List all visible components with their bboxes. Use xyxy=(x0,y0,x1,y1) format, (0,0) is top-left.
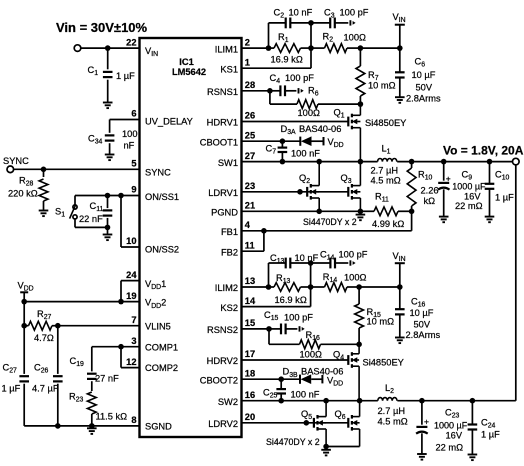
resistor R16 xyxy=(268,329,270,344)
node ON/SS tie xyxy=(118,193,124,199)
ground R28 xyxy=(39,210,49,212)
svg-text:50V: 50V xyxy=(416,83,433,93)
svg-text:1 µF: 1 µF xyxy=(481,430,500,440)
wire L1 to Vo xyxy=(397,161,512,163)
node Q1 drain xyxy=(358,101,364,107)
svg-text:25: 25 xyxy=(245,130,255,140)
svg-text:10 nF: 10 nF xyxy=(289,8,313,18)
resistor R6 xyxy=(269,91,271,104)
svg-text:22 mΩ: 22 mΩ xyxy=(455,201,483,211)
svg-text:SYNC: SYNC xyxy=(145,168,171,178)
svg-text:18: 18 xyxy=(245,368,255,378)
node VIN/C16 xyxy=(397,284,403,290)
svg-text:Si4850EY: Si4850EY xyxy=(365,118,406,128)
node Q2 gate xyxy=(297,189,303,195)
node R13/R14/KS2 xyxy=(308,284,314,290)
wire Q5 Q6 sources xyxy=(326,446,360,448)
svg-text:COMP1: COMP1 xyxy=(145,342,178,352)
wire pin 3 COMP1 xyxy=(92,346,140,348)
resistor R2 xyxy=(325,44,348,53)
svg-text:ON/SS2: ON/SS2 xyxy=(145,245,179,255)
wire KS1 pin 1 xyxy=(242,67,312,69)
node Q6 drain xyxy=(357,398,363,404)
svg-text:24: 24 xyxy=(126,270,137,280)
node C26 bottom xyxy=(55,423,61,429)
svg-text:16.9 kΩ: 16.9 kΩ xyxy=(275,295,307,305)
svg-text:100Ω: 100Ω xyxy=(344,33,367,43)
resistor R28 xyxy=(43,169,45,177)
node COMP tie xyxy=(118,344,124,350)
wire R27 to pin 7 VLIN5 xyxy=(58,325,140,327)
node Q3 source / ground xyxy=(358,209,364,215)
svg-text:1 µF: 1 µF xyxy=(2,384,21,394)
node C23 top xyxy=(419,398,425,404)
svg-text:12: 12 xyxy=(126,357,136,367)
node R10 top xyxy=(409,159,415,165)
svg-text:100: 100 xyxy=(122,129,138,139)
wire RSNS2 pin 15 xyxy=(242,328,270,330)
svg-text:5: 5 xyxy=(131,159,136,169)
svg-text:21: 21 xyxy=(245,201,255,211)
svg-text:SW1: SW1 xyxy=(218,158,238,168)
wire VDD down xyxy=(23,302,25,326)
svg-text:13: 13 xyxy=(245,276,255,286)
capacitor C9 polarized xyxy=(443,162,445,181)
svg-text:10 mΩ: 10 mΩ xyxy=(368,81,396,91)
resistor R13 xyxy=(274,283,301,292)
svg-text:15: 15 xyxy=(245,318,255,328)
svg-text:10: 10 xyxy=(126,236,136,246)
svg-text:100 pF: 100 pF xyxy=(340,8,369,18)
svg-text:UV_DELAY: UV_DELAY xyxy=(145,117,193,127)
svg-text:6: 6 xyxy=(131,109,136,119)
svg-text:CBOOT1: CBOOT1 xyxy=(200,137,238,147)
svg-text:FB2: FB2 xyxy=(221,247,238,257)
transistor Q1 Si4850EY xyxy=(347,117,349,127)
svg-text:2.26: 2.26 xyxy=(421,186,439,196)
svg-text:HDRV2: HDRV2 xyxy=(207,356,238,366)
svg-text:16.9 kΩ: 16.9 kΩ xyxy=(271,55,303,65)
svg-text:Vin = 30V±10%: Vin = 30V±10% xyxy=(56,20,148,35)
svg-text:2.7 µH: 2.7 µH xyxy=(371,166,399,176)
capacitor C3 xyxy=(311,22,330,24)
capacitor C4 xyxy=(270,90,281,92)
svg-text:100 nF: 100 nF xyxy=(291,149,320,159)
wire RSNS1 pin 28 xyxy=(242,90,270,92)
node pin24/pin19 xyxy=(118,299,124,305)
node R23 bottom xyxy=(89,423,95,429)
svg-text:ON/SS1: ON/SS1 xyxy=(145,192,179,202)
svg-text:IC1: IC1 xyxy=(179,57,193,67)
svg-text:1000 µF: 1000 µF xyxy=(434,421,468,431)
wire pin 24 VDD1 xyxy=(121,280,140,282)
svg-text:nF: nF xyxy=(124,141,135,151)
svg-text:22 mΩ: 22 mΩ xyxy=(436,443,464,453)
ground C10 xyxy=(485,216,495,218)
node C24 top xyxy=(470,398,476,404)
node C11 top xyxy=(105,193,111,199)
capacitor C27 xyxy=(23,326,25,374)
svg-text:RSNS1: RSNS1 xyxy=(207,87,238,97)
svg-text:10 mΩ: 10 mΩ xyxy=(367,317,395,327)
svg-text:17: 17 xyxy=(245,349,255,359)
svg-text:LDRV2: LDRV2 xyxy=(208,419,238,429)
svg-text:Vo = 1.8V, 20A: Vo = 1.8V, 20A xyxy=(443,144,524,158)
svg-text:BAS40-06: BAS40-06 xyxy=(301,367,343,377)
svg-text:RSNS2: RSNS2 xyxy=(207,325,238,335)
svg-text:+: + xyxy=(446,174,451,184)
svg-text:4: 4 xyxy=(245,220,251,230)
svg-text:2.8Arms: 2.8Arms xyxy=(406,330,441,340)
svg-text:16V: 16V xyxy=(464,192,481,202)
svg-text:KS2: KS2 xyxy=(220,303,238,313)
svg-text:26: 26 xyxy=(245,111,255,121)
wire SW1 row / output node xyxy=(242,161,378,163)
transistor Q4 Si4850EY xyxy=(347,355,349,365)
node R13 left xyxy=(266,284,272,290)
svg-text:11.5 kΩ: 11.5 kΩ xyxy=(96,412,128,422)
svg-text:100 pF: 100 pF xyxy=(339,250,368,260)
wire ILIM2 row xyxy=(242,286,269,288)
terminal SYNC xyxy=(7,166,14,173)
wire ON/SS2 pin 10 xyxy=(120,196,122,248)
svg-text:27: 27 xyxy=(245,151,255,161)
capacitor C7 xyxy=(281,141,283,147)
capacitor C6 xyxy=(399,48,401,72)
capacitor C14 xyxy=(311,262,331,264)
node CBOOT1/D3A/C7 xyxy=(280,138,286,144)
svg-text:100 nF: 100 nF xyxy=(291,390,320,400)
node VDD xyxy=(21,299,27,305)
svg-text:2.8Arms: 2.8Arms xyxy=(406,94,441,104)
capacitor C10 xyxy=(489,162,491,184)
svg-text:LDRV1: LDRV1 xyxy=(208,188,238,198)
wire LDRV1 pin 23 xyxy=(242,191,349,193)
svg-text:22 nF: 22 nF xyxy=(79,214,103,224)
svg-text:FB1: FB1 xyxy=(221,227,238,237)
svg-text:Si4850EY: Si4850EY xyxy=(363,358,404,368)
ground C16 xyxy=(395,337,405,339)
svg-text:1 µF: 1 µF xyxy=(116,71,135,81)
svg-text:Si4470DY x 2: Si4470DY x 2 xyxy=(303,217,357,227)
resistor R27 xyxy=(29,321,53,330)
node R7 top xyxy=(358,45,364,51)
capacitor C2 xyxy=(268,23,270,48)
svg-text:COMP2: COMP2 xyxy=(145,363,178,373)
node Q2 drain xyxy=(316,159,322,165)
wire PGND pin 21 xyxy=(242,210,361,212)
resistor R7 xyxy=(359,48,361,66)
capacitor C1 xyxy=(107,48,109,69)
node Vin/C1 junction xyxy=(105,45,111,51)
svg-text:+: + xyxy=(424,417,429,427)
ground C24 xyxy=(468,454,478,456)
ground SGND xyxy=(91,426,93,428)
ground C9 xyxy=(439,216,449,218)
svg-text:14: 14 xyxy=(245,296,256,306)
svg-text:HDRV1: HDRV1 xyxy=(207,118,238,128)
node C7/SW1 xyxy=(280,159,286,165)
ground Q5 Q6 xyxy=(321,449,331,451)
terminal Vo xyxy=(513,158,520,165)
capacitor C25 xyxy=(280,379,282,389)
node Q5 gate xyxy=(304,420,310,426)
svg-text:LM5642: LM5642 xyxy=(172,67,206,77)
svg-text:100Ω: 100Ω xyxy=(300,350,323,360)
capacitor C19 xyxy=(91,347,93,372)
svg-text:16V: 16V xyxy=(446,431,463,441)
node C9 top xyxy=(441,159,447,165)
node C2/C3 xyxy=(308,20,314,26)
svg-text:100 pF: 100 pF xyxy=(284,313,313,323)
terminal Vin input xyxy=(74,45,81,52)
svg-text:10 µF: 10 µF xyxy=(412,70,436,80)
node Q5 source ground xyxy=(323,444,329,450)
svg-text:3: 3 xyxy=(131,336,136,346)
svg-text:220 kΩ: 220 kΩ xyxy=(8,189,38,199)
wire FB1 row xyxy=(242,230,412,232)
node CBOOT2/D3B/C25 xyxy=(278,376,284,382)
inductor L1 xyxy=(378,159,397,162)
capacitor C11 xyxy=(107,196,109,209)
wire CBOOT1 pin 25 xyxy=(242,140,283,142)
svg-text:1000 µF: 1000 µF xyxy=(452,182,486,192)
resistor R23 xyxy=(87,392,96,414)
svg-text:2: 2 xyxy=(245,37,250,47)
node Q2 source xyxy=(316,209,322,215)
ground C11 xyxy=(103,234,113,236)
svg-text:20: 20 xyxy=(245,412,255,422)
switch S1 xyxy=(74,196,76,205)
node Q1 source / L1 xyxy=(358,159,364,165)
node C11 bottom xyxy=(105,225,111,231)
svg-text:SYNC: SYNC xyxy=(3,156,29,166)
svg-text:SW2: SW2 xyxy=(218,397,238,407)
svg-text:8: 8 xyxy=(131,415,136,425)
wire KS2 pin 14 xyxy=(242,306,311,308)
wire HDRV1 pin 26 xyxy=(242,121,349,123)
svg-text:50V: 50V xyxy=(414,320,431,330)
transistor Q5 Si4470DY xyxy=(313,418,315,428)
svg-text:KS1: KS1 xyxy=(220,64,238,74)
svg-text:PGND: PGND xyxy=(211,208,238,218)
svg-text:22: 22 xyxy=(126,37,136,47)
svg-text:28: 28 xyxy=(245,80,255,90)
svg-text:1 µF: 1 µF xyxy=(495,193,514,203)
capacitor C16 xyxy=(399,287,401,309)
node R1/R2/KS1 xyxy=(308,45,314,51)
capacitor C24 xyxy=(471,401,473,425)
svg-text:4.5 mΩ: 4.5 mΩ xyxy=(371,176,401,186)
svg-text:10 µF: 10 µF xyxy=(410,308,434,318)
wire pin 6 UV_DELAY xyxy=(110,119,140,121)
wire CBOOT2 pin 18 xyxy=(242,378,282,380)
node SYNC/R28 xyxy=(41,167,47,173)
capacitor C15 xyxy=(269,328,281,330)
svg-text:9: 9 xyxy=(131,185,136,195)
svg-text:CBOOT2: CBOOT2 xyxy=(200,375,238,385)
resistor R14 xyxy=(325,283,348,292)
transistor Q6 Si4470DY xyxy=(347,418,349,428)
svg-text:4.99 kΩ: 4.99 kΩ xyxy=(372,219,404,229)
capacitor C34 xyxy=(105,134,115,136)
node C25/SW2 xyxy=(278,398,284,404)
wire VDD row to pin 19 xyxy=(24,301,139,303)
svg-text:BAS40-06: BAS40-06 xyxy=(299,124,341,134)
ground C23 xyxy=(417,453,427,455)
ground PGND xyxy=(356,214,366,216)
svg-text:7: 7 xyxy=(131,315,136,325)
svg-text:19: 19 xyxy=(126,291,136,301)
svg-text:ILIM1: ILIM1 xyxy=(215,44,238,54)
node C13/C14 xyxy=(308,260,314,266)
wire ILIM1 row xyxy=(242,47,269,49)
transistor Q3 Si4470DY xyxy=(347,187,349,197)
wire SYNC to pin 5 xyxy=(14,168,140,170)
svg-text:100Ω: 100Ω xyxy=(298,108,321,118)
svg-text:ILIM2: ILIM2 xyxy=(215,283,238,293)
svg-text:kΩ: kΩ xyxy=(424,196,436,206)
ground C34 xyxy=(105,154,115,156)
ground C6 xyxy=(395,96,405,98)
svg-text:VLIN5: VLIN5 xyxy=(145,321,171,331)
svg-text:100Ω: 100Ω xyxy=(344,273,367,283)
ground C1 xyxy=(103,102,113,104)
node R27 right xyxy=(55,323,61,329)
resistor R15 xyxy=(358,287,360,304)
node R27 left xyxy=(21,323,27,329)
node R10/R11/FB xyxy=(409,209,415,215)
wire L2 to output rail xyxy=(397,400,515,402)
resistor R11 xyxy=(360,210,374,212)
svg-text:1: 1 xyxy=(245,57,250,67)
resistor R10 xyxy=(411,162,413,168)
node Q4 drain xyxy=(356,342,362,348)
wire Vin to pin 22 xyxy=(81,47,140,49)
svg-text:27 nF: 27 nF xyxy=(95,374,119,384)
wire SGND row pin 8 xyxy=(24,425,139,427)
svg-text:11: 11 xyxy=(245,240,255,250)
node C10 top xyxy=(487,159,493,165)
svg-text:SGND: SGND xyxy=(145,422,172,432)
svg-text:10 nF: 10 nF xyxy=(295,253,319,263)
svg-text:2.7 µH: 2.7 µH xyxy=(378,406,406,416)
diode D3B BAS40-06 xyxy=(281,378,300,380)
resistor R1 xyxy=(274,44,301,53)
node VIN/C6 xyxy=(397,45,403,51)
node C15 left xyxy=(266,326,272,332)
svg-text:Si4470DY x 2: Si4470DY x 2 xyxy=(266,437,320,447)
node R15 top xyxy=(356,284,362,290)
svg-text:4.7Ω: 4.7Ω xyxy=(34,333,54,343)
svg-text:23: 23 xyxy=(245,181,255,191)
svg-text:16: 16 xyxy=(245,390,255,400)
inductor L2 xyxy=(378,398,397,401)
wire SW2 row xyxy=(242,400,378,402)
capacitor C23 polarized xyxy=(421,401,423,425)
wire HDRV2 pin 17 xyxy=(242,359,349,361)
wire pin 9 ON/SS1 xyxy=(75,195,140,197)
capacitor C13 xyxy=(268,263,270,287)
IC U1 LM5642 body xyxy=(140,38,242,437)
node R1 left xyxy=(266,45,272,51)
svg-text:4.7 µF: 4.7 µF xyxy=(32,384,59,394)
node Q5 drain xyxy=(323,398,329,404)
transistor Q2 Si4470DY xyxy=(306,187,308,197)
svg-text:100 pF: 100 pF xyxy=(285,73,314,83)
wire FB2 pin 11 xyxy=(242,250,264,252)
wire S1 to C11 bottom xyxy=(75,226,108,228)
diode D3A BAS40-06 xyxy=(282,140,300,142)
svg-text:4.5 mΩ: 4.5 mΩ xyxy=(378,417,408,427)
wire output rail right edge xyxy=(515,165,517,401)
node FB1/FB2 xyxy=(261,228,267,234)
node C4 left xyxy=(267,88,273,94)
wire COMP2 pin 12 xyxy=(120,347,122,368)
capacitor C26 xyxy=(57,326,59,374)
wire LDRV2 pin 20 xyxy=(242,422,349,424)
